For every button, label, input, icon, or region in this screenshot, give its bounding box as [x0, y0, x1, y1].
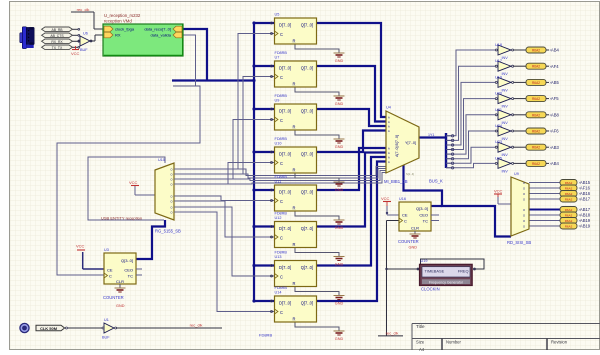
- svg-text:GND: GND: [335, 188, 344, 192]
- svg-text:INV: INV: [502, 169, 509, 173]
- svg-text:D[7..0]: D[7..0]: [279, 108, 291, 113]
- svg-text:C: C: [280, 236, 283, 241]
- svg-text:Number: Number: [446, 340, 461, 345]
- svg-text:RD_SISI_SB: RD_SISI_SB: [507, 240, 531, 245]
- svg-text:A: A: [388, 146, 390, 150]
- svg-text:CLOCKIN: CLOCKIN: [421, 287, 440, 292]
- svg-text:O: O: [523, 197, 525, 201]
- svg-text:U15: U15: [158, 158, 165, 162]
- svg-text:INV: INV: [502, 137, 509, 141]
- svg-text:O: O: [523, 186, 525, 190]
- svg-text:INV: INV: [502, 153, 509, 157]
- svg-text:C: C: [280, 310, 283, 315]
- svg-text:R6A2: R6A2: [532, 65, 540, 69]
- svg-text:O: O: [170, 177, 172, 181]
- svg-text:R6A2: R6A2: [532, 130, 540, 134]
- svg-text:GND: GND: [335, 302, 344, 306]
- svg-text:FD8RB: FD8RB: [275, 137, 288, 141]
- svg-text:U25: U25: [495, 156, 502, 160]
- svg-text:Revision: Revision: [551, 340, 568, 345]
- svg-text:O: O: [170, 172, 172, 176]
- svg-text:BUS_K: BUS_K: [429, 179, 443, 184]
- svg-text:U24: U24: [495, 124, 502, 128]
- svg-text:›AB19: ›AB19: [579, 218, 591, 223]
- svg-text:U16: U16: [399, 197, 406, 201]
- svg-text:Q[7..0]: Q[7..0]: [301, 265, 313, 270]
- svg-text:Size: Size: [416, 340, 425, 345]
- svg-text:U13: U13: [275, 255, 282, 259]
- svg-text:GND: GND: [116, 304, 125, 308]
- svg-text:U23: U23: [495, 140, 502, 144]
- svg-text:INV: INV: [502, 121, 509, 125]
- svg-text:GND: GND: [335, 102, 344, 106]
- svg-text:O: O: [170, 199, 172, 203]
- svg-text:R: R: [293, 317, 296, 322]
- svg-text:U4: U4: [386, 106, 391, 110]
- svg-text:data_recu[7..0]: data_recu[7..0]: [144, 27, 171, 32]
- svg-text:R6A2: R6A2: [565, 208, 573, 212]
- svg-text:C: C: [280, 75, 283, 80]
- svg-text:C: C: [280, 199, 283, 204]
- svg-text:›AB16: ›AB16: [579, 191, 591, 196]
- svg-text:TC: TC: [423, 219, 428, 224]
- svg-text:CLR: CLR: [411, 226, 419, 231]
- svg-text:CLR: CLR: [116, 279, 124, 284]
- svg-text:U5: U5: [275, 13, 280, 17]
- svg-text:VCC: VCC: [129, 180, 138, 185]
- svg-text:C: C: [280, 118, 283, 123]
- svg-text:U14: U14: [275, 291, 282, 295]
- svg-text:CE: CE: [402, 213, 408, 218]
- svg-text:GND: GND: [335, 337, 344, 341]
- svg-text:A: A: [388, 129, 390, 133]
- svg-text:rec_clk: rec_clk: [386, 330, 399, 335]
- svg-text:U3: U3: [104, 248, 109, 252]
- svg-text:TC: TC: [128, 274, 133, 279]
- svg-text:›AF5: ›AF5: [550, 96, 560, 101]
- svg-text:R: R: [293, 242, 296, 247]
- svg-text:›AB8: ›AB8: [550, 112, 560, 117]
- svg-text:Q[7..0]: Q[7..0]: [301, 226, 313, 231]
- svg-text:INV: INV: [502, 88, 509, 92]
- svg-text:Q[7..0]: Q[7..0]: [301, 22, 313, 27]
- svg-text:U11: U11: [275, 180, 282, 184]
- svg-text:BUF: BUF: [102, 336, 110, 340]
- svg-text:R6A2: R6A2: [565, 187, 573, 191]
- svg-text:RX_RX: RX_RX: [51, 40, 63, 44]
- svg-text:R6A2: R6A2: [565, 192, 573, 196]
- svg-text:O: O: [170, 210, 172, 214]
- svg-text:›AB17: ›AB17: [579, 197, 591, 202]
- svg-text:R6A2: R6A2: [565, 225, 573, 229]
- svg-text:reception VMd: reception VMd: [104, 18, 132, 23]
- svg-text:›AF16: ›AF16: [579, 186, 591, 191]
- svg-text:A4: A4: [419, 347, 425, 352]
- svg-text:O: O: [523, 208, 525, 212]
- svg-text:O: O: [170, 205, 172, 209]
- svg-text:FD8RB: FD8RB: [275, 286, 288, 290]
- svg-text:AB_CTS: AB_CTS: [50, 34, 64, 38]
- svg-text:C: C: [404, 219, 407, 224]
- svg-text:INV: INV: [502, 72, 509, 76]
- svg-text:D[7..0]: D[7..0]: [279, 65, 291, 70]
- svg-text:GND: GND: [335, 59, 344, 63]
- svg-text:Q[7..0]: Q[7..0]: [301, 189, 313, 194]
- svg-text:clock_fpga: clock_fpga: [115, 27, 135, 32]
- svg-text:VCC: VCC: [71, 51, 80, 56]
- svg-text:A: A: [388, 155, 390, 159]
- svg-text:FD8RB: FD8RB: [275, 51, 288, 55]
- svg-text:INV: INV: [502, 105, 509, 109]
- svg-text:Title: Title: [416, 324, 425, 329]
- svg-text:R6A2: R6A2: [532, 113, 540, 117]
- svg-text:O: O: [170, 167, 172, 171]
- svg-text:›AB15: ›AB15: [579, 180, 591, 185]
- svg-text:D[7..0]: D[7..0]: [279, 22, 291, 27]
- svg-text:R6A2: R6A2: [532, 97, 540, 101]
- svg-text:CE: CE: [107, 268, 113, 273]
- svg-text:D[7..0]: D[7..0]: [279, 189, 291, 194]
- svg-text:RG_5155_SB: RG_5155_SB: [155, 229, 181, 234]
- svg-text:A[7..0] B[7..0]: A[7..0] B[7..0]: [395, 135, 399, 157]
- svg-text:Frequency Generator: Frequency Generator: [429, 280, 464, 284]
- svg-text:INV: INV: [502, 56, 509, 60]
- svg-text:RX: RX: [115, 33, 121, 38]
- svg-text:›AB4: ›AB4: [550, 161, 560, 166]
- svg-text:USB ENTITY reception: USB ENTITY reception: [101, 216, 142, 221]
- svg-text:U6: U6: [83, 32, 88, 36]
- svg-text:O: O: [170, 182, 172, 186]
- svg-text:TX_TX: TX_TX: [52, 46, 63, 50]
- svg-text:AB_RB: AB_RB: [51, 28, 63, 32]
- svg-text:U12: U12: [275, 216, 282, 220]
- svg-text:O: O: [523, 219, 525, 223]
- svg-text:›AB18: ›AB18: [579, 213, 591, 218]
- svg-text:U17: U17: [495, 59, 502, 63]
- svg-text:O: O: [523, 181, 525, 185]
- svg-text:A: A: [388, 160, 390, 164]
- svg-text:R: R: [293, 168, 296, 173]
- svg-text:C: C: [109, 274, 112, 279]
- svg-text:D[7..0]: D[7..0]: [279, 151, 291, 156]
- svg-text:Q[7..0]: Q[7..0]: [301, 151, 313, 156]
- svg-text:D[7..0]: D[7..0]: [279, 300, 291, 305]
- svg-text:U18: U18: [495, 43, 502, 47]
- svg-text:VCC: VCC: [76, 244, 85, 249]
- svg-text:VCC: VCC: [494, 189, 503, 194]
- svg-text:MI_BIB1_0B: MI_BIB1_0B: [384, 179, 408, 184]
- svg-text:›AB17: ›AB17: [579, 207, 591, 212]
- svg-text:Q[7..0]: Q[7..0]: [301, 300, 313, 305]
- svg-text:›AF4: ›AF4: [550, 64, 560, 69]
- svg-text:R: R: [293, 125, 296, 130]
- svg-text:R6A2: R6A2: [565, 181, 573, 185]
- svg-text:O: O: [170, 194, 172, 198]
- svg-text:FD8RB: FD8RB: [275, 212, 288, 216]
- svg-text:FREQ: FREQ: [458, 268, 469, 273]
- svg-text:U7: U7: [275, 56, 280, 60]
- svg-text:D[7..0]: D[7..0]: [279, 265, 291, 270]
- svg-text:FD8RB: FD8RB: [275, 94, 288, 98]
- svg-text:Y[7..0]: Y[7..0]: [405, 141, 416, 145]
- svg-text:A: A: [388, 115, 390, 119]
- svg-text:R6A2: R6A2: [532, 81, 540, 85]
- svg-text:Q[3..0]: Q[3..0]: [416, 206, 428, 211]
- svg-text:Q[7..0]: Q[7..0]: [301, 65, 313, 70]
- svg-text:R: R: [293, 82, 296, 87]
- svg-text:A: A: [388, 124, 390, 128]
- svg-text:O: O: [523, 213, 525, 217]
- svg-text:R6A2: R6A2: [532, 162, 540, 166]
- svg-text:FD8RB: FD8RB: [259, 333, 272, 338]
- svg-text:TIMEBASE: TIMEBASE: [425, 268, 445, 273]
- svg-text:R6A2: R6A2: [532, 146, 540, 150]
- svg-text:C: C: [280, 32, 283, 37]
- svg-text:›AB4: ›AB4: [550, 48, 560, 53]
- svg-text:C: C: [280, 275, 283, 280]
- svg-text:U10: U10: [275, 142, 282, 146]
- svg-text:U19: U19: [421, 259, 428, 263]
- svg-text:A: A: [388, 120, 390, 124]
- svg-text:R6A2: R6A2: [532, 49, 540, 53]
- svg-text:U21: U21: [495, 108, 502, 112]
- svg-text:U9: U9: [275, 99, 280, 103]
- svg-text:S[1..4]: S[1..4]: [406, 172, 414, 176]
- svg-text:U20: U20: [495, 92, 502, 96]
- svg-text:data_valida: data_valida: [151, 33, 172, 38]
- svg-text:O: O: [523, 224, 525, 228]
- svg-text:R: R: [293, 281, 296, 286]
- svg-text:BUF: BUF: [80, 48, 88, 52]
- svg-text:FD8RB: FD8RB: [275, 175, 288, 179]
- svg-text:O: O: [523, 192, 525, 196]
- svg-text:CEO: CEO: [419, 213, 428, 218]
- svg-text:›AF6: ›AF6: [550, 129, 560, 134]
- svg-text:1Y1: 1Y1: [428, 133, 434, 137]
- svg-text:FD8RB: FD8RB: [275, 251, 288, 255]
- svg-text:›AB5: ›AB5: [550, 80, 560, 85]
- svg-text:R: R: [293, 39, 296, 44]
- svg-text:GND: GND: [335, 145, 344, 149]
- svg-text:GND: GND: [335, 263, 344, 267]
- svg-text:›AB3: ›AB3: [550, 145, 560, 150]
- svg-text:rec_clk: rec_clk: [77, 7, 90, 12]
- svg-text:CEO: CEO: [124, 268, 133, 273]
- svg-text:A: A: [388, 151, 390, 155]
- svg-text:D[7..0]: D[7..0]: [279, 226, 291, 231]
- svg-text:GND: GND: [335, 226, 344, 230]
- svg-text:COUNTER: COUNTER: [398, 239, 419, 244]
- svg-text:Q[3..0]: Q[3..0]: [121, 258, 133, 263]
- svg-text:R6A2: R6A2: [565, 198, 573, 202]
- svg-text:C: C: [280, 161, 283, 166]
- svg-text:U19: U19: [495, 75, 502, 79]
- svg-text:U_reception_rs232: U_reception_rs232: [104, 13, 141, 18]
- svg-text:rec_clk: rec_clk: [190, 323, 203, 328]
- svg-text:›AB19: ›AB19: [579, 224, 591, 229]
- svg-text:U9: U9: [514, 172, 519, 176]
- svg-text:R: R: [293, 206, 296, 211]
- svg-text:GND: GND: [409, 245, 418, 249]
- svg-text:CLK 50M: CLK 50M: [40, 326, 58, 331]
- svg-text:COUNTER: COUNTER: [103, 295, 124, 300]
- svg-text:VCC: VCC: [381, 196, 390, 201]
- svg-text:Q[7..0]: Q[7..0]: [301, 108, 313, 113]
- svg-text:R6A2: R6A2: [565, 219, 573, 223]
- svg-text:R6A2: R6A2: [565, 214, 573, 218]
- svg-text:U1: U1: [104, 318, 109, 322]
